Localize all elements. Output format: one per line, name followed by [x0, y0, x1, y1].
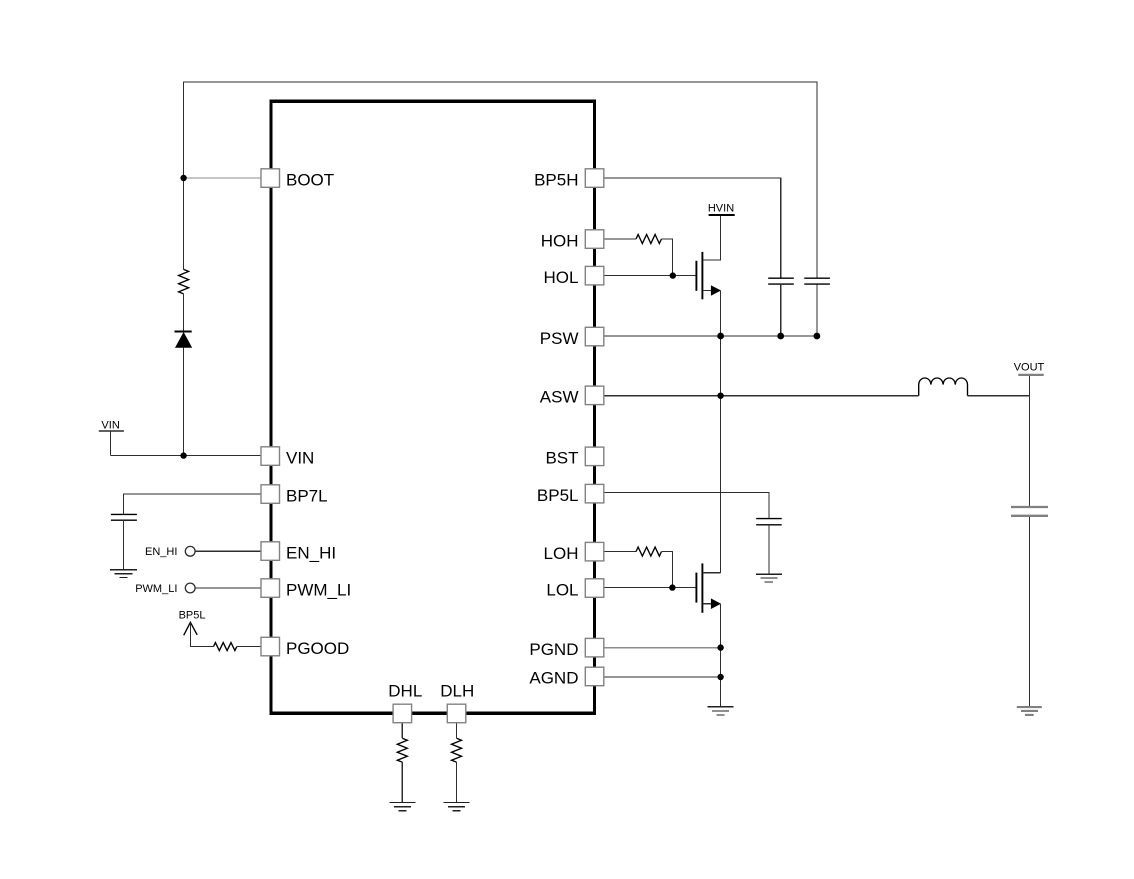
svg-text:BP5L: BP5L — [179, 609, 206, 621]
svg-text:HOL: HOL — [544, 268, 579, 287]
svg-text:AGND: AGND — [529, 669, 578, 688]
svg-text:EN_HI: EN_HI — [145, 546, 177, 558]
svg-text:HOH: HOH — [541, 231, 579, 250]
svg-text:HVIN: HVIN — [708, 203, 734, 215]
svg-text:VIN: VIN — [101, 420, 119, 432]
svg-text:DHL: DHL — [388, 682, 422, 701]
svg-text:EN_HI: EN_HI — [286, 543, 336, 562]
svg-text:PWM_LI: PWM_LI — [286, 580, 351, 599]
svg-text:LOH: LOH — [544, 544, 579, 563]
svg-text:PGOOD: PGOOD — [286, 639, 349, 658]
svg-text:PSW: PSW — [540, 329, 579, 348]
svg-text:PGND: PGND — [529, 640, 578, 659]
svg-text:VIN: VIN — [286, 448, 314, 467]
svg-text:BP5H: BP5H — [534, 170, 578, 189]
svg-text:BOOT: BOOT — [286, 170, 334, 189]
svg-text:DLH: DLH — [440, 682, 474, 701]
svg-text:BST: BST — [545, 449, 578, 468]
svg-text:PWM_LI: PWM_LI — [135, 583, 177, 595]
svg-text:LOL: LOL — [546, 580, 578, 599]
svg-text:ASW: ASW — [540, 388, 579, 407]
svg-text:VOUT: VOUT — [1014, 361, 1045, 373]
svg-text:BP5L: BP5L — [537, 486, 579, 505]
svg-text:BP7L: BP7L — [286, 486, 328, 505]
